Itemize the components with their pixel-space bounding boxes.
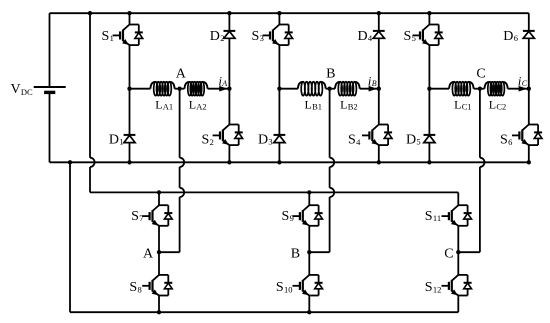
battery VDC negative plate [44, 91, 55, 94]
junction dot top rail col S3 [277, 11, 281, 15]
wire S8 to bottom rail [158, 296, 160, 313]
svg-text:L: L [454, 98, 461, 112]
wire S9 collector lead [308, 192, 310, 205]
wire bottom rail [70, 311, 458, 313]
node B junction dot [327, 87, 331, 91]
svg-text:L: L [340, 98, 347, 112]
svg-text:A: A [221, 79, 227, 88]
wire S3 collector lead [278, 13, 280, 24]
junction dot top rail / feed [88, 11, 92, 15]
wire S7 to midpoint A [158, 226, 160, 252]
svg-text:C2: C2 [496, 102, 506, 112]
wire top positive rail [50, 12, 529, 14]
svg-text:C: C [476, 67, 485, 82]
wire S7 collector lead [158, 192, 160, 205]
svg-text:V: V [11, 82, 21, 97]
inductor LB2 [335, 82, 340, 89]
IGBT S5 [429, 24, 438, 26]
inductor LA1 [150, 82, 155, 89]
svg-text:8: 8 [138, 284, 142, 294]
junction dot mid rail col S2 [227, 160, 231, 164]
wire coil to node B [326, 88, 335, 90]
IGBT S7 [159, 204, 168, 206]
svg-text:B: B [372, 79, 377, 88]
wire D6 top lead [528, 13, 530, 31]
svg-text:S: S [425, 209, 433, 224]
junction dot winding left B [277, 87, 281, 91]
wire S12 to bottom rail [457, 296, 459, 313]
svg-text:A: A [176, 67, 187, 82]
svg-text:3: 3 [260, 33, 264, 43]
wire midpoint to S10 [308, 252, 310, 275]
svg-text:S: S [131, 209, 139, 224]
wire node A horizontal jog [159, 251, 180, 253]
wire S11 to midpoint C [457, 226, 459, 252]
wire winding row right B with current arrow [360, 88, 379, 90]
node A junction dot [177, 87, 181, 91]
junction dot bottom rail col S10 [307, 310, 311, 314]
wire S9 to midpoint B [308, 226, 310, 252]
junction dot top rail col D2 [227, 11, 231, 15]
svg-text:5: 5 [412, 33, 416, 43]
node C junction dot [478, 87, 482, 91]
wire battery top lead [49, 13, 51, 87]
wire node A to lower bridge [179, 89, 181, 158]
diode D1 [124, 134, 136, 136]
midpoint A junction dot [157, 250, 161, 254]
wire D2 top lead [228, 13, 230, 31]
svg-text:S: S [129, 280, 137, 295]
wire D3 to mid rail [278, 143, 280, 163]
wire D1 to mid rail [129, 143, 131, 163]
midpoint C junction dot [456, 250, 460, 254]
junction dot mid rail col S4 [377, 160, 381, 164]
current arrow iB [369, 86, 378, 92]
wire S3 emitter to winding [278, 45, 280, 89]
junction dot mid rail col D1 [127, 160, 131, 164]
svg-text:D: D [503, 29, 513, 44]
diode D3 [274, 134, 286, 136]
svg-text:2: 2 [220, 33, 224, 43]
svg-text:S: S [500, 133, 508, 148]
wire battery bottom lead [49, 92, 51, 162]
svg-text:11: 11 [433, 213, 441, 223]
junction dot winding left C [427, 87, 431, 91]
wire coil to node C [474, 88, 485, 90]
wire winding to D5 [428, 89, 430, 135]
inductor LA2 [185, 82, 190, 89]
wire winding row left A [130, 88, 151, 90]
wire D5 to mid rail [428, 143, 430, 163]
junction dot bottom rail col S8 [157, 310, 161, 314]
svg-text:L: L [489, 98, 496, 112]
wire midpoint to S8 [158, 252, 160, 275]
svg-text:9: 9 [290, 213, 294, 223]
svg-text:B2: B2 [348, 102, 358, 112]
junction dot winding right C [527, 87, 531, 91]
midpoint B junction dot [307, 250, 311, 254]
svg-text:10: 10 [284, 284, 293, 294]
wire S4 to mid rail [378, 145, 380, 162]
wire winding to S6 [528, 89, 530, 125]
svg-text:C1: C1 [462, 102, 472, 112]
svg-text:4: 4 [368, 33, 373, 43]
wire node C horizontal jog [458, 251, 480, 253]
inductor LB1 [298, 82, 303, 89]
junction dot top rail col D4 [377, 11, 381, 15]
IGBT S3 [279, 24, 288, 26]
wire node B horizontal jog [309, 251, 329, 253]
svg-text:S: S [404, 29, 412, 44]
wire midpoint to S12 [457, 252, 459, 275]
wire winding row left C [429, 88, 449, 90]
svg-text:B: B [291, 246, 300, 261]
IGBT S12 [458, 274, 467, 276]
wire S2 to mid rail [228, 145, 230, 162]
junction dot lower rail col S7 [157, 190, 161, 194]
wire S5 collector lead [428, 13, 430, 24]
wire winding to S2 [228, 89, 230, 125]
svg-text:L: L [305, 98, 312, 112]
junction dot mid rail col S6 [527, 160, 531, 164]
wire lower positive rail [90, 191, 458, 193]
IGBT S6 [529, 124, 538, 126]
svg-text:5: 5 [416, 137, 420, 147]
IGBT S1 [130, 24, 139, 26]
svg-text:12: 12 [433, 284, 442, 294]
wire winding to D1 [129, 89, 131, 135]
junction dot mid rail / negative feed [68, 160, 72, 164]
wire S6 to mid rail [528, 145, 530, 162]
current arrow iC [519, 86, 528, 92]
diode D2 [224, 30, 236, 32]
svg-text:4: 4 [356, 137, 361, 147]
svg-text:1: 1 [110, 33, 114, 43]
wire winding row right A with current arrow [208, 88, 230, 90]
svg-text:D: D [210, 29, 220, 44]
IGBT S11 [458, 204, 467, 206]
svg-text:A1: A1 [163, 102, 173, 112]
wire winding to D3 [278, 89, 280, 135]
svg-text:B1: B1 [312, 102, 322, 112]
junction dot top rail col S5 [427, 11, 431, 15]
svg-text:B: B [326, 67, 335, 82]
IGBT S10 [309, 274, 318, 276]
wire S1 collector lead [129, 13, 131, 24]
svg-text:S: S [425, 280, 433, 295]
IGBT S9 [309, 204, 318, 206]
wire mid negative rail [50, 161, 529, 163]
svg-text:S: S [348, 133, 356, 148]
diode D4 [373, 30, 385, 32]
svg-text:A: A [143, 246, 154, 261]
svg-text:S: S [252, 29, 260, 44]
inductor LC1 [449, 82, 454, 89]
svg-text:C: C [522, 79, 528, 88]
junction dot mid rail col D3 [277, 160, 281, 164]
IGBT S2 [229, 124, 238, 126]
inductor LC2 [485, 82, 490, 89]
wire S11 collector lead [457, 192, 459, 205]
wire negative feed to bottom rail [69, 162, 71, 312]
svg-text:S: S [282, 209, 290, 224]
battery VDC positive plate [34, 86, 66, 88]
junction dot winding right A [227, 87, 231, 91]
svg-text:S: S [276, 280, 284, 295]
wire D4 to winding [378, 38, 380, 88]
svg-text:2: 2 [210, 137, 214, 147]
IGBT S4 [379, 124, 388, 126]
svg-text:7: 7 [139, 213, 143, 223]
svg-text:L: L [189, 98, 196, 112]
svg-text:S: S [102, 29, 110, 44]
svg-text:D: D [406, 133, 416, 148]
svg-text:L: L [155, 98, 162, 112]
junction dot lower rail col S9 [307, 190, 311, 194]
wire node C to lower bridge [479, 89, 481, 158]
junction dot winding right B [377, 87, 381, 91]
svg-text:DC: DC [21, 87, 33, 97]
svg-text:3: 3 [268, 137, 272, 147]
wire coil to node A [175, 88, 185, 90]
junction dot mid rail col D5 [427, 160, 431, 164]
svg-text:D: D [258, 133, 268, 148]
svg-text:6: 6 [508, 137, 512, 147]
svg-text:D: D [109, 133, 119, 148]
wire positive feed to lower bridges [89, 13, 91, 158]
IGBT S8 [159, 274, 168, 276]
wire D2 to winding [228, 38, 230, 88]
wire S10 to bottom rail [308, 296, 310, 313]
svg-text:S: S [202, 133, 210, 148]
junction dot winding left A [127, 87, 131, 91]
svg-text:1: 1 [119, 137, 123, 147]
wire D6 to winding [528, 38, 530, 88]
svg-text:D: D [358, 29, 368, 44]
diode D5 [424, 134, 436, 136]
svg-text:C: C [444, 246, 453, 261]
wire node B to lower bridge [329, 89, 331, 158]
svg-text:6: 6 [514, 33, 518, 43]
wire S5 emitter to winding [428, 45, 430, 89]
wire D4 top lead [378, 13, 380, 31]
current arrow iA [219, 86, 228, 92]
wire winding to S4 [378, 89, 380, 125]
svg-text:A2: A2 [196, 102, 206, 112]
wire winding row right C with current arrow [508, 88, 529, 90]
wire winding row left B [279, 88, 298, 90]
diode D6 [523, 30, 535, 32]
junction dot top rail col S1 [127, 11, 131, 15]
wire S1 emitter to winding [129, 45, 131, 89]
